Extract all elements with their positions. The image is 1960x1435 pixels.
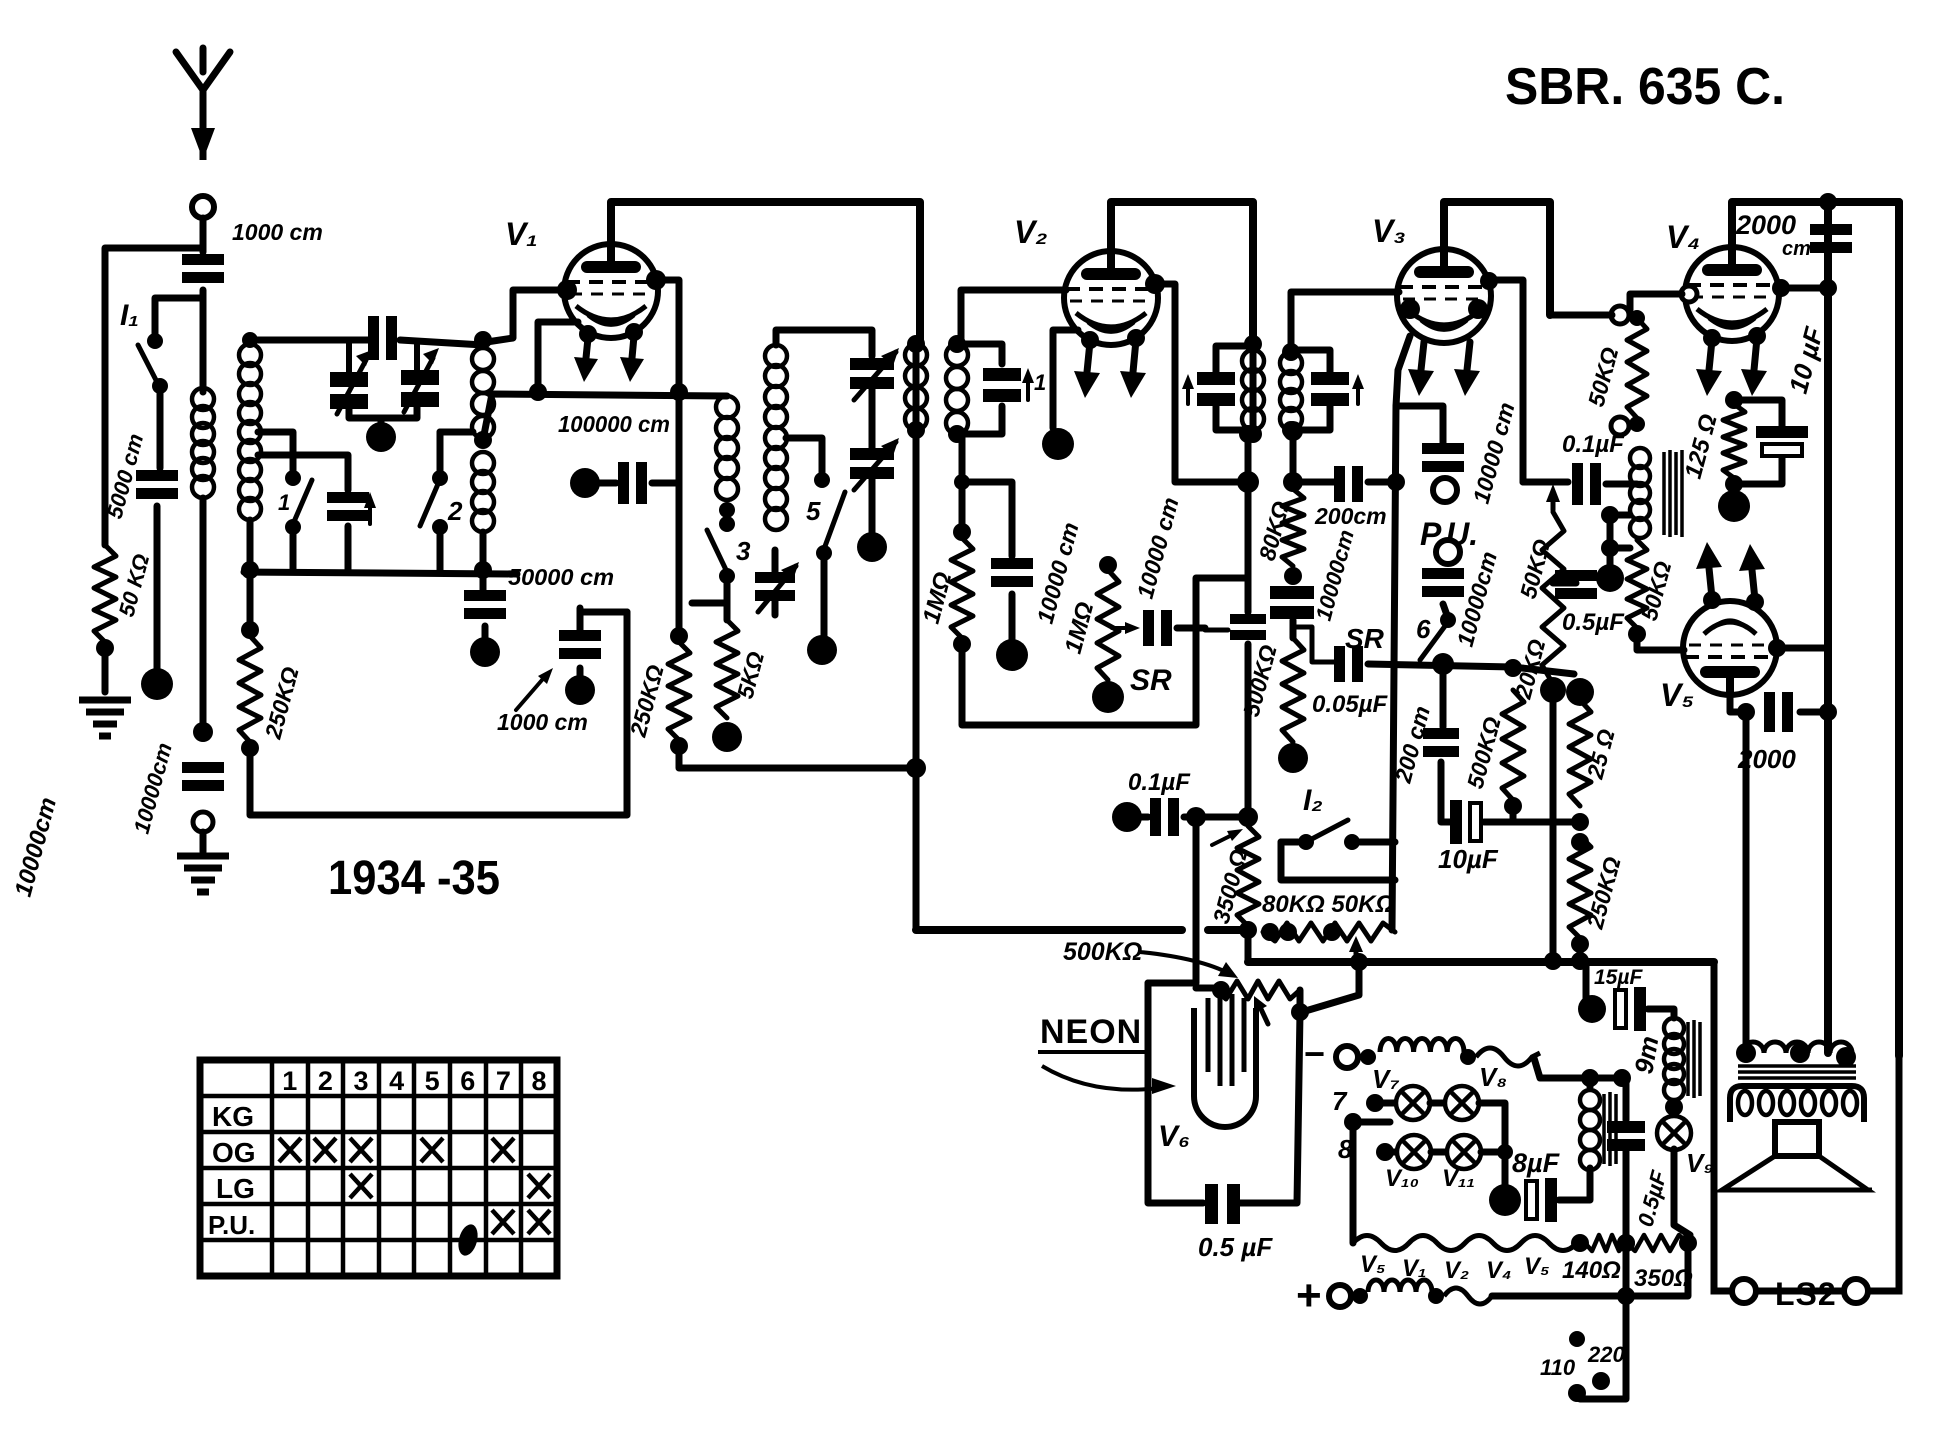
junction [1737,703,1755,721]
wire cap1 down [345,526,352,570]
label 350Ohm [1634,1265,1693,1292]
junction [1244,425,1262,443]
wire coil1b join [480,532,487,590]
variable capacitor A [330,340,372,414]
table header 6 [460,1066,475,1096]
svg-text:LG: LG [216,1173,255,1204]
svg-text:0.1µF: 0.1µF [1128,769,1191,796]
tube V2 [1064,251,1158,345]
pu terminal 1 [1433,478,1457,502]
tube V4 [1685,247,1779,341]
label 500KOhm pot [1063,938,1142,966]
wire V1 plate top [611,202,920,344]
label 10000cm pu2 [1452,549,1502,650]
svg-text:9m: 9m [1628,1034,1664,1076]
svg-text:V₁: V₁ [505,216,538,252]
wire 10000 down [1009,594,1016,640]
svg-text:SBR. 635 C.: SBR. 635 C. [1505,58,1785,116]
label V5 h [1360,1251,1386,1278]
label 50KOhm v4a [1583,344,1624,409]
junction [1571,833,1589,851]
heater pin [625,323,643,341]
switch 3 [707,516,735,584]
wire 1M down [962,578,1247,725]
svg-text:10000cm: 10000cm [10,795,62,900]
capacitor 10uF v4 [1756,426,1808,456]
heater pin [1081,331,1099,349]
bus B to frame [1711,962,1718,1058]
wire tap link [1607,515,1614,566]
label 20KOhm pot [1509,636,1550,702]
bus B drop [1245,930,1252,962]
wire V2 plate top [1111,202,1253,344]
wire dash [1205,628,1228,633]
wire 200cm h [1303,479,1334,486]
capacitor 10000 v2 [991,558,1033,587]
terminal 8uF [1489,1184,1521,1216]
coil antenna primary [192,388,214,498]
wire row1 to choke [1587,1078,1594,1087]
resistor 250K v5 [1569,836,1591,938]
svg-text:15µF: 15µF [1594,966,1643,989]
junction [474,561,492,579]
capacitor 1000cm v1 [559,630,601,659]
wire I1 top [155,298,203,335]
junction [1617,1234,1635,1252]
label 1000 cm [232,219,323,245]
junction sel [1569,1331,1585,1347]
capacitor sr v3 [1334,646,1363,682]
junction sel3 [1568,1384,1586,1402]
switch 5 [814,472,845,561]
switch 2 [420,470,448,535]
svg-text:0.5µF: 0.5µF [1633,1168,1672,1230]
wire v2v3 stem [1250,344,1257,434]
svg-text:80KΩ 50KΩ: 80KΩ 50KΩ [1262,891,1394,918]
svg-text:NEON: NEON [1040,1013,1142,1051]
label 5 [806,496,821,526]
junction [1768,639,1786,657]
switch 6 [1420,612,1456,672]
svg-text:1MΩ: 1MΩ [918,569,958,627]
label 10000cm pu1 [1468,400,1520,507]
table X 3-3 [350,1174,372,1198]
wire cap to 500K [1290,620,1297,638]
coil filter1 right upper [472,348,494,438]
terminal plus [1329,1285,1351,1307]
terminal [1718,490,1750,522]
junction [906,758,926,778]
junction [1261,923,1279,941]
label V4 [1666,219,1700,255]
arrow NEON [1042,1066,1176,1094]
wire pot down [1550,690,1557,960]
junction [1352,1288,1368,1304]
tube V1 [564,244,658,338]
svg-text:V₁₀: V₁₀ [1385,1165,1419,1192]
junction [1376,1143,1394,1161]
table header 5 [425,1066,440,1096]
table row LG [216,1173,255,1204]
terminal [1596,564,1624,592]
svg-text:V₁₁: V₁₁ [1442,1165,1475,1192]
junction [1819,193,1837,211]
resistor 250K v1 [668,642,690,740]
arrow heater V5 a [1696,542,1722,598]
wire tank cap link top [957,344,1002,364]
label V1 [505,216,538,252]
label 10000cm v3 [1311,527,1359,623]
junction [1736,1043,1756,1063]
core choke [1604,1092,1616,1166]
wire riser2 [1245,644,1252,812]
arrow heater V2 a [1074,342,1100,398]
coil filter1 left [239,344,261,520]
label 25Ohm [1581,726,1619,782]
wire I2 a [1281,839,1298,846]
svg-text:5: 5 [425,1066,440,1096]
capacitor tank v3 [1311,372,1349,406]
label 10000cm far left [10,795,62,900]
variable capacitor C [850,348,899,400]
svg-text:I₁: I₁ [120,299,139,332]
capacitor 0.5uF v5 [1555,570,1597,599]
junction [1629,416,1645,432]
label V9 [1686,1148,1714,1178]
wire 822 bus [1484,819,1580,826]
wire filter link [483,394,727,440]
wire sr tee [1293,627,1334,662]
wire filter2 top [776,330,872,356]
wire lamp mid a [1430,1100,1446,1107]
terminal [712,722,742,752]
junction [953,523,971,541]
junction [1504,797,1522,815]
junction [1601,539,1619,557]
junction [1283,421,1303,441]
label 0.5uF neon [1198,1232,1273,1262]
junction [1544,952,1562,970]
label 110 [1540,1355,1576,1380]
antenna terminal [192,196,214,218]
coil interstage [1630,448,1650,538]
bus A b [1208,926,1248,934]
coil v2v3 primary [1242,350,1264,430]
capacitor 10000cm [182,762,224,791]
switch I2 [1298,820,1360,850]
svg-text:P.U.: P.U. [208,1210,255,1240]
wire v1v2 left [913,344,920,930]
table header 3 [353,1066,368,1096]
capacitor 50000cm [464,590,506,619]
table blob [1293,1109,1295,1111]
terminal [470,637,500,667]
junction [1282,343,1300,361]
rail right outer [1895,202,1903,1056]
junction grid [474,331,492,349]
resistor 350 [1626,1235,1688,1251]
svg-text:2: 2 [318,1066,333,1096]
wire cap 5000 down [154,506,161,668]
resistor 500K v3 [1282,638,1304,742]
label 125Ohm [1680,411,1723,481]
capacitor 0.1uF [1150,798,1179,836]
svg-text:8: 8 [1338,1134,1353,1164]
label 10uF [1438,844,1499,874]
antenna [176,48,230,160]
terminal [193,812,213,832]
terminal [565,675,595,705]
wire cap1000 down [577,668,584,676]
label 140Ohm [1562,1257,1621,1284]
speaker cone [1722,1156,1872,1190]
coil mains a [1380,1038,1464,1052]
screen pin V2 [1145,274,1165,294]
label minus [1304,1033,1325,1074]
svg-text:110: 110 [1540,1355,1576,1380]
core output transformer [1738,1066,1856,1078]
junction [1279,923,1297,941]
wire I2 b [1360,839,1395,846]
junction [1790,1043,1810,1063]
svg-text:3: 3 [353,1066,368,1096]
junction [1239,425,1257,443]
wire 250K to bus [1577,944,1584,960]
capacitor 0.1uF v4 [1572,463,1601,505]
wire V5 plate down [1743,712,1750,1053]
label cm small [1782,238,1811,260]
table switch chart [200,1060,557,1276]
arrow 500K pointer [1140,952,1238,978]
capacitor 10000 v3 [1270,586,1314,619]
arrow heater V4 a [1696,340,1722,396]
arrow pot 20K [1546,484,1560,510]
wire cap1000 stub [577,608,584,630]
arrow heater V5 b [1739,544,1765,600]
terminal V2 cathode [1042,428,1074,460]
label V1 h [1402,1255,1426,1282]
wire V2 cathode [1053,330,1078,428]
table row OG [212,1137,256,1168]
arrow 3500 [1212,829,1243,845]
label 1MOhm sr [1060,599,1100,657]
wire to ground2 [200,832,207,852]
junction [1323,923,1341,941]
arrow tank3 [1352,374,1364,404]
wire sr v3 [1368,664,1574,674]
coil mains b [1368,1280,1432,1292]
resistor 80K50K [1263,923,1395,941]
speaker frame [1714,1056,1899,1291]
junction [1460,1049,1476,1065]
junction [1480,272,1498,290]
junction big [1566,678,1594,706]
junction [241,561,259,579]
junction [1601,506,1619,524]
junction [1628,625,1646,643]
svg-text:V₅: V₅ [1360,1251,1386,1278]
resistor 3500 [1237,826,1259,926]
wire to V5 grid [1637,634,1684,650]
label 1 tank [1034,370,1046,395]
junction [907,335,925,353]
V4 grid circle [1681,286,1697,302]
terminal 0.1uF [1112,802,1142,832]
junction [1239,921,1257,939]
heater pin [579,325,597,343]
svg-text:+: + [1296,1271,1322,1320]
label 10uF v4 [1783,323,1830,397]
resistor 50K v4 [1627,318,1647,418]
resistor 500K pot [1216,981,1300,999]
wire 1M chain [959,434,966,532]
svg-text:SR: SR [1130,664,1172,697]
coil choke [1580,1090,1600,1170]
wire switch1 down [290,530,297,570]
junction [96,639,114,657]
capacitor 1000cm antenna [182,254,224,283]
core interstage [1664,450,1682,537]
junction [1344,1113,1362,1131]
arrow 1000cm [516,668,553,710]
wire pu sw stem [1443,604,1448,618]
junction [1613,1069,1631,1087]
variable capacitor B [401,340,439,412]
svg-text:1: 1 [282,1066,297,1096]
terminal [1278,743,1308,773]
svg-text:500KΩ: 500KΩ [1063,938,1142,966]
junction [1432,653,1454,675]
wire bottom long [250,612,627,815]
wire busB to neon right [1302,962,1359,1012]
terminal [807,635,837,665]
svg-text:140Ω: 140Ω [1562,1257,1621,1284]
wire to hbus 768 [679,746,916,768]
wire V2 grid [961,290,1066,344]
capacitor pu 2 [1422,568,1464,597]
wire 8uF right [1559,1168,1590,1200]
label 1934-35 [328,852,500,905]
junction [670,737,688,755]
junction [1571,813,1589,831]
wire V9 down [1674,1149,1690,1243]
junction [1350,953,1368,971]
resistor pot 20K [1542,512,1564,684]
variable capacitor E [755,562,799,612]
svg-text:cm: cm [1782,238,1811,260]
wire row1 [1534,1058,1622,1078]
label 50000cm [508,564,614,590]
wire tankcap bot [1216,406,1253,430]
wire riser 200 [1440,664,1447,727]
wire 500K down [1510,806,1517,822]
junction [948,425,966,443]
svg-text:10000cm: 10000cm [1311,527,1359,623]
svg-text:V₉: V₉ [1686,1148,1714,1178]
junction [529,383,547,401]
arrow tank1 [1022,368,1034,400]
svg-text:−: − [1304,1033,1325,1074]
resistor 50K v5 [1627,540,1647,628]
wire 01 to riser [1184,814,1248,821]
wire 10uF loop2 [1734,458,1782,484]
wire y480 [1523,479,1568,486]
table X 2-1 [279,1138,301,1162]
junction [907,421,925,439]
capacitor 100000cm [618,462,647,504]
junction [1238,807,1258,827]
junction [1291,1003,1309,1021]
lamp V8 [1445,1086,1479,1120]
wire V5 right [1775,645,1828,652]
wire tap low [1610,545,1630,552]
junction [1617,1234,1635,1252]
wire coil to dot [200,498,207,726]
svg-text:50000 cm: 50000 cm [508,564,614,590]
heater pin [1703,329,1721,347]
tube V5 [1683,601,1777,695]
open junction a [1611,306,1629,324]
label 3 [736,536,751,566]
neon tube V6 [1194,994,1256,1127]
resistor 5K [716,620,738,718]
svg-text:10000cm: 10000cm [129,740,177,836]
wire V4 right [1779,285,1828,292]
wire stub 1122 [1353,1119,1390,1126]
coil filter2 right [765,345,787,530]
wire neon right [1240,1012,1300,1203]
screen pin V1 [646,270,666,290]
svg-text:1000 cm: 1000 cm [497,709,588,735]
junction [193,722,213,742]
label V2 h [1444,1257,1469,1284]
svg-text:8: 8 [531,1066,546,1096]
svg-text:I₂: I₂ [1303,784,1323,817]
wire tap mid [1610,512,1630,519]
label 250KOhm [259,664,303,742]
svg-text:0.5 µF: 0.5 µF [1198,1232,1273,1262]
wire coil tap1 [258,432,293,472]
terminal 15uF [1578,995,1606,1023]
capacitor filter1 top [368,316,397,360]
wire varcap join [378,418,385,426]
junction [1571,935,1589,953]
svg-text:1: 1 [1034,370,1046,395]
label 10000cm [129,740,177,836]
lamp V10 [1397,1135,1431,1169]
svg-text:4: 4 [389,1066,404,1096]
label I2 [1303,784,1323,817]
junction [1237,471,1259,493]
coil v1v2 secondary [946,344,968,434]
ground left [79,700,131,736]
terminal minus [1336,1046,1358,1068]
svg-text:100000 cm: 100000 cm [558,411,670,437]
wire switch2 down [437,530,444,570]
wire 100000 stub [598,480,616,487]
junction sel2 [1592,1372,1610,1390]
arrow heater V4 b [1741,338,1767,396]
coil output secondary [1730,1086,1864,1122]
resistor 25 [1569,700,1591,806]
terminal dot [141,668,173,700]
svg-text:10000 cm: 10000 cm [1468,400,1520,507]
wire varcap A down [349,407,417,418]
junction [1571,1234,1589,1252]
capacitor trimmer1 [327,492,369,521]
variable capacitor D [850,438,899,490]
pu terminal 2 [1436,540,1460,564]
